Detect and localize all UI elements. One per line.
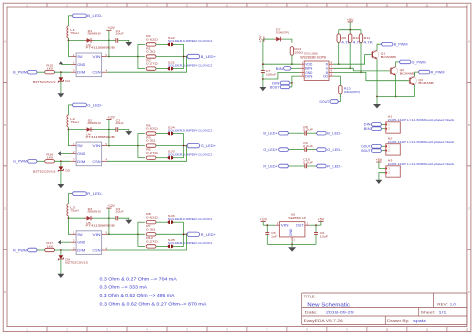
port R_LED+ (cap) — [279, 164, 289, 168]
junction — [338, 63, 340, 65]
wire capacitor to port — [307, 132, 316, 134]
wire port to resistor — [37, 160, 45, 162]
capacitor C1 — [116, 38, 118, 42]
ground — [58, 93, 65, 97]
svg-text:1K0: 1K0 — [47, 67, 54, 71]
svg-text:BC846B: BC846B — [381, 55, 396, 59]
wire ground rail — [267, 243, 316, 245]
resistor R12 — [146, 245, 156, 248]
svg-text:4.7K: 4.7K — [363, 41, 374, 45]
wire port to resistor — [37, 249, 45, 251]
pin 5 VIN — [102, 56, 107, 58]
port B_LED+ (cap) — [279, 131, 289, 135]
junction — [60, 160, 62, 162]
svg-text:R_LED-: R_LED- — [327, 164, 341, 168]
wire capacitor to ground — [118, 40, 129, 42]
svg-text:0.3 Ohm & 0.27 Ohm --> 704 mA: 0.3 Ohm & 0.27 Ohm --> 704 mA — [100, 276, 178, 281]
wire top branch left — [138, 43, 145, 45]
wire +12V to VIN — [263, 224, 275, 226]
pin 4 CSN — [102, 249, 107, 251]
wire C7 to ground — [262, 73, 264, 87]
svg-text:BOUT: BOUT — [361, 149, 370, 153]
pin 3 DIM — [71, 71, 76, 73]
ground — [125, 42, 132, 46]
svg-text:R_PWM: R_PWM — [431, 71, 445, 75]
port BOUT (H2) — [371, 149, 381, 153]
pin 2 — [385, 128, 387, 130]
pin 1 SW — [71, 233, 76, 235]
wire mid branch right — [156, 145, 188, 147]
resistor R2 — [146, 67, 156, 70]
junction — [68, 40, 70, 42]
diode D1 — [85, 38, 93, 43]
svg-text:GND: GND — [289, 228, 293, 236]
svg-text:VIN: VIN — [281, 224, 289, 228]
svg-text:EasyEDA V5.7.26: EasyEDA V5.7.26 — [304, 319, 343, 323]
pin 4 CSN — [102, 71, 107, 73]
wire — [382, 123, 386, 125]
solder jumper SJ5 — [168, 245, 170, 249]
connector H1 body — [386, 122, 401, 133]
junction — [291, 82, 293, 84]
inductor L3 — [67, 204, 69, 216]
svg-text:C: C — [4, 208, 6, 211]
capacitor C6 — [315, 225, 317, 232]
wire inductor to SW node — [68, 216, 84, 218]
svg-text:10uF: 10uF — [320, 235, 329, 239]
svg-text:0.3 Ohm & 0.62 Ohm --> 495 mA: 0.3 Ohm & 0.62 Ohm --> 495 mA — [100, 293, 175, 298]
capacitor C3 — [116, 216, 118, 220]
op-amp U U3 PT4115 body — [76, 53, 102, 77]
wire R_LED- stub — [68, 193, 72, 195]
svg-text:G_LED+: G_LED+ — [263, 148, 277, 152]
svg-text:CSN: CSN — [92, 159, 100, 164]
svg-text:WS2818B SOP8: WS2818B SOP8 — [300, 56, 326, 60]
svg-text:G_LED+: G_LED+ — [201, 144, 216, 148]
junction — [291, 244, 293, 246]
wire VIN to network — [107, 145, 145, 147]
wire LED- to inductor — [67, 105, 69, 115]
port DOUT (H2) — [371, 145, 381, 149]
ground — [288, 247, 296, 251]
port B_PWM — [28, 70, 38, 74]
resistor R14 — [290, 47, 293, 56]
pin 2 — [385, 150, 387, 152]
junction — [108, 145, 110, 147]
wire DIN pin routing — [292, 76, 300, 87]
junction — [183, 56, 185, 58]
svg-text:75uH: 75uH — [70, 31, 78, 35]
wire jumper to right bus — [173, 68, 184, 70]
diode D2 — [85, 127, 93, 132]
wire C6 down — [315, 235, 317, 245]
row ticks left and right — [3, 83, 471, 250]
wire capacitor to port — [307, 165, 316, 167]
svg-text:BZT52C5V1S: BZT52C5V1S — [33, 169, 56, 173]
wire +5V rail — [339, 29, 361, 31]
svg-text:GND: GND — [77, 240, 85, 245]
svg-text:G_LED-: G_LED- — [87, 103, 103, 107]
wire VIN node down to pin 5 — [108, 130, 110, 146]
pin 6 B — [329, 71, 333, 73]
junction — [349, 29, 351, 31]
svg-text:75uH: 75uH — [70, 120, 78, 124]
svg-text:0.3 Ohm & 0.62 Ohm & 0.27 Ohm-: 0.3 Ohm & 0.62 Ohm & 0.27 Ohm--> 870 mA — [100, 301, 207, 306]
svg-text:DOUT: DOUT — [320, 100, 330, 104]
svg-text:DIM: DIM — [77, 159, 85, 164]
wire SW — [68, 218, 70, 234]
svg-text:B_LED+: B_LED+ — [263, 132, 277, 136]
svg-text:0.3Ω: 0.3Ω — [146, 139, 156, 143]
svg-text:0.62Ω: 0.62Ω — [146, 38, 159, 42]
junction — [183, 145, 185, 147]
wire — [382, 128, 386, 130]
wire capacitor to port — [307, 149, 316, 151]
junction — [108, 40, 110, 42]
wire to capacitor C8 — [289, 132, 305, 134]
inductor L2 — [67, 115, 69, 127]
connector H3 body — [386, 166, 401, 177]
wire R14 to VDD row — [291, 55, 293, 64]
svg-text:D: D — [468, 291, 470, 294]
resistor R4 — [146, 43, 156, 46]
capacitor C7 — [261, 71, 265, 73]
wire port to resistor — [37, 71, 45, 73]
svg-text:75uH: 75uH — [70, 209, 78, 213]
pin 5 VIN — [102, 233, 107, 235]
svg-text:SW: SW — [77, 143, 83, 148]
svg-text:PT4115B89E/B: PT4115B89E/B — [86, 224, 115, 228]
solder jumper SJ3 — [168, 156, 170, 160]
wire emitter rail — [377, 96, 415, 98]
resistor R13 — [339, 85, 342, 94]
resistor R7 — [146, 233, 156, 236]
svg-text:100nF: 100nF — [266, 72, 277, 76]
svg-text:+12V: +12V — [107, 26, 115, 30]
wire to solder jumper — [156, 245, 168, 247]
wire Q1 collector to port — [377, 44, 382, 50]
wire Q2 collector to port — [396, 62, 400, 67]
svg-text:+5V: +5V — [347, 18, 354, 22]
wire to solder jumper — [156, 221, 168, 223]
wire to solder jumper — [156, 157, 168, 159]
wire VIN to network — [107, 233, 145, 235]
svg-text:PT4115B89E/B: PT4115B89E/B — [86, 46, 115, 50]
svg-text:B_LED-: B_LED- — [87, 14, 103, 18]
junction — [266, 224, 268, 226]
wire resistor to DIM — [54, 71, 70, 73]
svg-text:RB060M-60: RB060M-60 — [88, 121, 101, 125]
pin 2 GND — [71, 241, 76, 243]
ground flag on GND pin — [58, 240, 61, 244]
svg-text:OUT: OUT — [296, 224, 304, 228]
pin 1 VDD — [300, 63, 304, 65]
solder jumper SJ4 — [168, 132, 170, 136]
junction — [108, 129, 110, 131]
svg-text:SOLDERJUMPER-CLONC2: SOLDERJUMPER-CLONC2 — [168, 39, 213, 43]
svg-text:1/1: 1/1 — [438, 310, 447, 314]
junction — [108, 56, 110, 58]
wire bottom branch left — [138, 68, 145, 70]
capacitor C8 — [305, 131, 307, 136]
svg-text:VIN: VIN — [92, 143, 100, 148]
ground — [373, 104, 381, 108]
resistor R9 — [338, 30, 340, 34]
pin 3 VIN — [275, 224, 279, 226]
svg-text:+5V: +5V — [376, 158, 383, 162]
port G_PWM — [28, 160, 38, 164]
inductor L1 — [67, 26, 69, 38]
svg-text:10uF: 10uF — [115, 121, 124, 125]
power flag +12V — [106, 118, 111, 120]
port R_LED- — [72, 192, 86, 196]
wire — [382, 145, 386, 147]
wire VIN to network — [107, 56, 145, 58]
wire diode to VIN node — [93, 129, 109, 131]
svg-text:BZT52C5V1S: BZT52C5V1S — [65, 261, 88, 265]
svg-text:0.62Ω: 0.62Ω — [146, 215, 159, 219]
title block frame — [302, 293, 467, 325]
connector H2 body — [386, 144, 401, 155]
junction — [108, 217, 110, 219]
svg-text:R_LED+: R_LED+ — [201, 233, 216, 237]
pin 1 — [385, 168, 387, 170]
wire top branch left — [138, 221, 145, 223]
port R_LED+ — [187, 232, 200, 236]
wire B_LED- stub — [68, 15, 72, 17]
wire OUT to +5V — [309, 224, 321, 226]
wire G_LED- stub — [68, 104, 72, 106]
resistor R10 — [349, 30, 351, 34]
wire GND pin — [61, 241, 71, 243]
resistor R15 — [45, 71, 55, 74]
pin 2 OUT — [305, 224, 309, 226]
ground flag on GND pin — [59, 61, 63, 64]
zener diode D5 — [60, 161, 62, 166]
svg-text:RB060M-60: RB060M-60 — [88, 32, 101, 36]
port B_LED+ — [187, 54, 200, 58]
svg-text:REV:: REV: — [437, 302, 448, 306]
junction — [349, 67, 351, 69]
port B_PWM — [381, 42, 393, 46]
svg-text:R9: R9 — [342, 36, 347, 40]
op-amp U U5 PT4115 body — [76, 231, 102, 255]
junction — [262, 78, 264, 80]
wire to solder jumper — [156, 133, 168, 135]
junction — [137, 56, 139, 58]
port G_PWM — [399, 60, 411, 64]
ground — [125, 220, 132, 224]
wire capacitor to ground — [118, 218, 129, 220]
svg-text:2105-112P L=11.6MMGold-plated: 2105-112P L=11.6MMGold-plated black — [388, 118, 455, 122]
wire CSN to LED+ — [107, 57, 187, 73]
resistor R8 — [146, 221, 156, 224]
solder jumper SJ1 — [168, 67, 170, 71]
svg-text:Date:: Date: — [305, 310, 318, 314]
svg-text:B_PWM: B_PWM — [394, 43, 408, 47]
wire SW — [68, 130, 70, 146]
transistor Q2 — [390, 67, 398, 76]
wire top branch left — [138, 133, 145, 135]
power flag +5V (U6) — [318, 221, 323, 223]
wire right bus — [183, 134, 185, 158]
svg-text:SOLDERJUMPER-CLONC2: SOLDERJUMPER-CLONC2 — [168, 241, 213, 245]
svg-text:SOLDERJUMPER-CLONC2: SOLDERJUMPER-CLONC2 — [168, 153, 213, 157]
svg-text:BOUT: BOUT — [270, 85, 280, 89]
power flag +12V — [106, 207, 111, 209]
wire +5V to diode — [264, 38, 274, 40]
wire VIN node to capacitor — [109, 39, 116, 41]
wire GND pin — [61, 63, 71, 65]
wire to capacitor C10 — [289, 165, 305, 167]
svg-text:C: C — [468, 208, 470, 211]
wire R9 down — [338, 43, 340, 65]
pin 1 GND — [291, 237, 293, 241]
svg-text:SOLDERJUMPER-CLONC2: SOLDERJUMPER-CLONC2 — [168, 217, 213, 221]
wire VIN node down to pin 5 — [108, 218, 110, 234]
capacitor C2 — [116, 127, 118, 131]
wire jumper to right bus — [173, 221, 184, 223]
ground — [260, 87, 267, 91]
svg-text:VIN: VIN — [92, 232, 100, 237]
power flag +12V (U6) — [261, 221, 266, 223]
wire R13 to DOUT — [339, 94, 341, 102]
wire to capacitor C9 — [289, 149, 305, 151]
wire zener to ground — [60, 171, 62, 184]
junction — [137, 233, 139, 235]
wire LED- to inductor — [67, 194, 69, 204]
power flag +5V (H3) — [376, 161, 381, 163]
wire zener to ground — [60, 260, 62, 274]
svg-text:2105-112P L=11.6MMGold-plated: 2105-112P L=11.6MMGold-plated black — [388, 162, 455, 166]
pin 5 DO — [329, 75, 333, 77]
power flag +5V rotated — [263, 37, 265, 42]
junction — [183, 233, 185, 235]
wire BIN to pin — [291, 67, 300, 69]
svg-text:RB060M-60: RB060M-60 — [88, 210, 101, 214]
wire Q3 collector to port — [415, 72, 419, 76]
wire DO to R13 — [333, 76, 340, 86]
resistor R6 — [146, 132, 156, 135]
wire Q3 emitter — [414, 85, 416, 96]
svg-text:GS4007PL: GS4007PL — [276, 30, 290, 34]
wire inductor to SW node — [68, 38, 84, 40]
svg-text:2.2uF: 2.2uF — [303, 144, 313, 148]
pin 1 — [385, 124, 387, 126]
svg-text:GND: GND — [77, 62, 85, 67]
pin 3 DIM — [71, 160, 76, 162]
svg-text:2018-09-29: 2018-09-29 — [326, 310, 354, 314]
junction — [315, 224, 317, 226]
wire VIN node down to pin 5 — [108, 40, 110, 56]
wire jumper to right bus — [173, 43, 184, 45]
svg-text:SOLDERJUMPER-CLONC2: SOLDERJUMPER-CLONC2 — [168, 63, 213, 67]
junction — [68, 129, 70, 131]
svg-text:R_LED-: R_LED- — [87, 192, 103, 196]
wire Q1 emitter — [376, 59, 378, 97]
svg-text:1uF: 1uF — [271, 235, 278, 239]
svg-text:New Schematic: New Schematic — [307, 302, 350, 308]
port R_PWM — [418, 70, 430, 74]
svg-text:33Ω(DIP): 33Ω(DIP) — [344, 90, 361, 94]
svg-text:D: D — [4, 291, 6, 294]
svg-text:2105-112P L=11.6MMGold-plated: 2105-112P L=11.6MMGold-plated black — [388, 140, 455, 144]
wire VIN node to capacitor — [109, 217, 116, 219]
wire jumper to right bus — [173, 157, 184, 159]
wire GND pin routing — [263, 72, 300, 79]
svg-text:0.62Ω: 0.62Ω — [146, 127, 159, 131]
wire left bus — [137, 134, 139, 158]
resistor R16 — [45, 160, 55, 163]
wire DIN port — [290, 82, 292, 84]
svg-text:0.27Ω: 0.27Ω — [146, 151, 159, 155]
wire R output row to Q1 base — [333, 55, 372, 65]
wire SW — [68, 40, 70, 56]
svg-text:B_LED+: B_LED+ — [201, 55, 216, 59]
svg-text:2.2uF: 2.2uF — [303, 160, 313, 164]
junction — [186, 56, 188, 58]
port BIN (H1) — [371, 127, 381, 131]
resistor R3 — [146, 144, 156, 147]
wire CSN to LED+ — [107, 234, 187, 250]
port B_LED- — [72, 14, 86, 18]
wire — [382, 150, 386, 152]
port DOUT — [330, 100, 339, 104]
junction — [137, 145, 139, 147]
svg-text:CSN: CSN — [92, 248, 100, 253]
svg-text:+12V: +12V — [107, 204, 115, 208]
wire resistor to DIM — [54, 249, 70, 251]
wire VIN node to capacitor — [109, 129, 116, 131]
power flag +5V — [348, 21, 353, 23]
regulator U6 body — [279, 222, 305, 237]
capacitor C5 — [266, 225, 268, 232]
wire +5V to pin 1 — [379, 162, 385, 168]
wire B output row to Q3 base — [333, 72, 410, 80]
svg-text:DIM: DIM — [77, 248, 85, 253]
svg-text:+5V: +5V — [318, 218, 325, 222]
pin 3 DIM — [71, 249, 76, 251]
svg-text:BZT52C5V1S: BZT52C5V1S — [33, 80, 56, 84]
junction — [108, 233, 110, 235]
diode D7 — [274, 37, 282, 42]
svg-text:BIN: BIN — [364, 127, 372, 131]
wire VDD row — [263, 63, 300, 65]
pin 4 CSN — [102, 160, 107, 162]
wire R10 down — [349, 43, 351, 69]
svg-text:10uF: 10uF — [115, 210, 124, 214]
capacitor C9 — [305, 147, 307, 152]
svg-text:0.3Ω: 0.3Ω — [146, 227, 156, 231]
svg-text:+5V: +5V — [258, 35, 262, 43]
wire inductor to SW node — [68, 127, 84, 129]
pin 5 VIN — [102, 145, 107, 147]
port R_LED- (cap) — [316, 164, 326, 168]
ground — [58, 184, 65, 188]
svg-text:1.0: 1.0 — [450, 302, 456, 306]
svg-text:0.27Ω: 0.27Ω — [146, 240, 159, 244]
solder jumper SJ6 — [168, 220, 170, 224]
svg-text:0.3 Ohm --> 333 mA: 0.3 Ohm --> 333 mA — [100, 285, 148, 290]
svg-text:BIN: BIN — [276, 67, 284, 71]
svg-text:SW: SW — [77, 54, 83, 59]
svg-text:DIM: DIM — [77, 70, 85, 75]
ground — [376, 180, 383, 184]
wire resistor to DIM — [54, 160, 70, 162]
svg-text:DIN: DIN — [305, 75, 313, 79]
transistor Q1 — [371, 50, 379, 59]
wire to solder jumper — [156, 68, 168, 70]
